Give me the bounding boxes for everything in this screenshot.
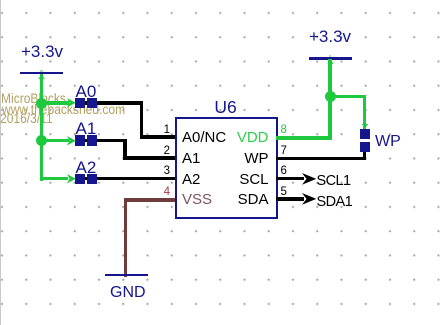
power +3.3v left rail bar xyxy=(20,72,63,75)
ground GND label xyxy=(110,285,146,301)
pin 1 number xyxy=(152,125,170,137)
pad A2 squares xyxy=(75,174,85,184)
pin 7 number xyxy=(281,146,287,158)
wire green vertical from right +3.3v rail xyxy=(328,59,332,140)
wire A0 net to pin 1 xyxy=(140,135,176,139)
power +3.3v left label xyxy=(20,43,64,60)
IC U6 box xyxy=(175,117,278,219)
pad WP label xyxy=(375,134,401,150)
pin 3 number xyxy=(152,166,170,178)
wire SDA pin 5 stub xyxy=(276,197,304,201)
IC U6 reference label xyxy=(214,99,236,117)
arrow green into A0 pad xyxy=(67,98,76,108)
IC pin label A2 xyxy=(182,172,200,187)
IC pin label SDA xyxy=(200,192,269,207)
ground bar xyxy=(105,274,148,277)
pad WP squares xyxy=(360,129,371,139)
arrow green into WP pad xyxy=(361,124,368,130)
pin 2 number xyxy=(152,146,170,158)
wire green vertical from left +3.3v rail xyxy=(40,74,44,181)
wire A0 net vertical xyxy=(140,101,144,139)
wire SCL pin 6 stub xyxy=(276,177,304,181)
arrow green into A2 pad xyxy=(67,174,76,184)
IC pin label WP xyxy=(200,151,269,166)
wire WP net vertical to pad xyxy=(363,152,367,161)
IC pin label SCL xyxy=(200,172,269,187)
net label SDA1 xyxy=(317,195,353,210)
pad A0 squares xyxy=(75,98,85,108)
pad A0 label xyxy=(76,83,97,100)
arrow green into A1 pad xyxy=(67,136,76,146)
wire VSS net vertical xyxy=(124,198,127,277)
pin 5 number xyxy=(281,187,287,199)
junction node at A0 branch xyxy=(36,98,47,109)
pad A2 label xyxy=(76,159,97,176)
pin 8 number xyxy=(281,125,287,137)
pad A1 label xyxy=(76,120,97,137)
IC pin label A0/NC xyxy=(182,130,226,145)
IC pin label VSS xyxy=(182,192,212,207)
wire green branch to WP pad vertical xyxy=(363,95,367,129)
watermark text MicroBlocks xyxy=(1,91,66,105)
wire green branch to A1 xyxy=(42,139,69,143)
arrow green up into right rail xyxy=(327,59,334,65)
junction node at A1 branch xyxy=(36,135,47,146)
wire VDD pin 8 stub xyxy=(276,136,331,140)
wire A2 net to pin 3 xyxy=(76,177,176,181)
arrow off-page SCL1 xyxy=(302,173,317,185)
watermark text www.thebackshed.com xyxy=(2,102,125,116)
arrow green up into left rail xyxy=(38,74,45,80)
pin 4 number xyxy=(152,187,170,199)
watermark text 2016/3/11 xyxy=(0,111,53,125)
wire green spur above right rail xyxy=(329,55,332,57)
net label SCL1 xyxy=(317,174,351,189)
wire A1 net to pin 2 xyxy=(123,156,176,160)
IC pin label A1 xyxy=(182,151,200,166)
wire green spur above left rail xyxy=(40,70,43,72)
wire A1 net vertical xyxy=(123,139,127,160)
junction node on VDD net xyxy=(325,91,336,102)
wire WP pin 7 stub xyxy=(276,157,366,161)
wire A0 net horizontal xyxy=(76,101,143,105)
wire A1 net horizontal xyxy=(76,139,127,143)
wire green branch to WP pad horizontal xyxy=(330,95,366,99)
wire VSS net horizontal xyxy=(124,198,176,201)
wire green branch to A2 xyxy=(40,177,69,181)
pad A1 squares xyxy=(75,135,85,145)
wire green branch to A0 xyxy=(42,101,69,105)
pin 6 number xyxy=(281,166,287,178)
power +3.3v right label xyxy=(308,28,352,45)
arrow off-page SDA1 xyxy=(302,193,317,205)
power +3.3v right rail bar xyxy=(309,57,352,60)
IC pin label VDD xyxy=(200,130,269,145)
